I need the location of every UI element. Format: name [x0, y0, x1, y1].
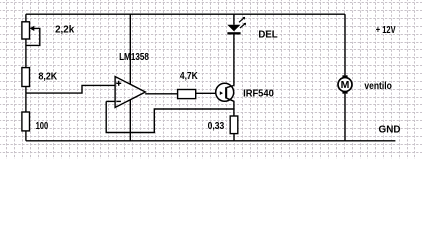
- svg-text:0,33: 0,33: [208, 121, 225, 132]
- node divider junction: [25, 93, 27, 112]
- label 2,2k: [55, 25, 75, 36]
- motor M ventilo: [338, 75, 352, 93]
- wire +12V top rail: [26, 13, 345, 15]
- svg-text:8,2K: 8,2K: [39, 71, 58, 82]
- label 4,7K: [180, 71, 198, 82]
- svg-text:LM1358: LM1358: [119, 52, 149, 63]
- potentiometer 2,2k: [22, 22, 40, 46]
- resistor 100: [22, 112, 30, 131]
- svg-text:IRF540: IRF540: [243, 89, 274, 100]
- svg-text:GND: GND: [379, 124, 401, 135]
- label 100: [36, 121, 49, 132]
- resistor 4,7K: [178, 90, 196, 99]
- svg-text:M: M: [341, 79, 350, 91]
- svg-text:100: 100: [36, 121, 49, 132]
- wire motor top to +12V rail: [344, 14, 346, 75]
- wire LED anode to top rail: [233, 14, 235, 25]
- svg-text:4,7K: 4,7K: [180, 71, 198, 82]
- wire pot top terminal: [25, 14, 27, 22]
- label IRF540: [243, 89, 274, 100]
- label ventilo: [364, 81, 391, 92]
- wire feedback loop to source node: [106, 101, 234, 132]
- label GND: [379, 124, 401, 135]
- label 8,2K: [39, 71, 58, 82]
- svg-text:ventilo: ventilo: [364, 81, 391, 92]
- wire 8,2K bottom to divider node: [25, 87, 27, 94]
- resistor 8,2K: [22, 68, 30, 87]
- label LM1358: [119, 52, 149, 63]
- wire motor bottom to GND rail: [344, 94, 346, 141]
- svg-text:2,2k: 2,2k: [55, 25, 75, 36]
- label + 12V: [376, 25, 396, 36]
- wire 100 bottom to GND rail: [25, 131, 27, 141]
- label M motor letter: [341, 79, 350, 91]
- wire LED cathode to drain: [233, 35, 235, 117]
- transistor Q1 IRF540: [216, 83, 234, 101]
- label 0,33: [208, 121, 225, 132]
- wire op-amp V+ pin to top rail: [129, 14, 131, 84]
- wire GND bottom rail: [26, 140, 396, 142]
- resistor 0,33: [230, 116, 238, 134]
- wire op-amp output: [145, 93, 177, 95]
- label DEL: [258, 30, 277, 41]
- wire 4,7K to gate: [196, 92, 221, 94]
- wire inverting input: [106, 100, 115, 102]
- wire pot bottom to 8,2K: [25, 39, 27, 68]
- op-amp U1 LM1358: [115, 77, 145, 108]
- wire 0,33 bottom to GND rail: [233, 134, 235, 141]
- wire divider node to op-amp + input: [26, 85, 115, 93]
- LED DEL: [227, 17, 246, 35]
- wire op-amp V- pin to bottom rail: [129, 100, 131, 141]
- svg-text:+ 12V: + 12V: [376, 25, 396, 36]
- svg-text:DEL: DEL: [258, 30, 277, 41]
